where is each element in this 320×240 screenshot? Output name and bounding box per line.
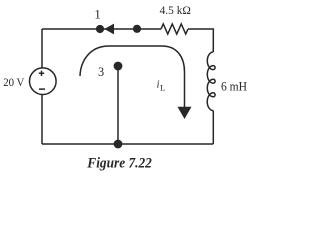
svg-text:3: 3 [98, 65, 104, 79]
svg-text:L: L [160, 83, 165, 93]
svg-text:20 V: 20 V [3, 75, 25, 89]
svg-text:6 mH: 6 mH [221, 79, 247, 93]
svg-text:Figure 7.22: Figure 7.22 [86, 155, 151, 171]
svg-text:1: 1 [94, 8, 100, 22]
svg-text:4.5 kΩ: 4.5 kΩ [160, 3, 191, 17]
